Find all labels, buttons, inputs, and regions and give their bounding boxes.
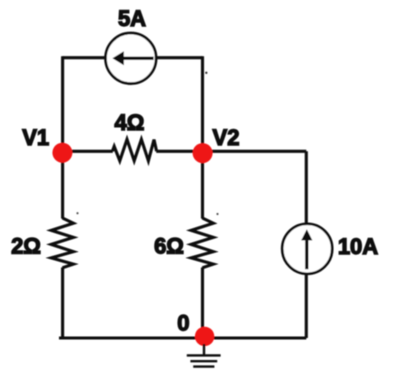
wire: middle vertical lower segment (6Ω down to node 0) xyxy=(201,268,204,339)
svg-text:0: 0 xyxy=(177,310,189,335)
wire: left vertical upper segment (top-left corner through node V1 to 2Ω) xyxy=(61,56,64,218)
resistor R2 6Ω zigzag body xyxy=(191,218,213,268)
current source I2 10A up-pointing arrow xyxy=(301,229,312,269)
node V2 junction dot xyxy=(193,143,213,163)
speck artifact right of 6Ω resistor top xyxy=(216,213,218,215)
svg-text:5A: 5A xyxy=(118,6,146,31)
current source I2 10A circle body xyxy=(282,224,332,274)
svg-text:6Ω: 6Ω xyxy=(154,234,184,259)
svg-text:V2: V2 xyxy=(213,125,240,150)
wire: left vertical lower segment (2Ω to bottom-left corner) xyxy=(61,268,64,340)
wire: middle vertical upper segment (top wire corner through node V2 to 6Ω) xyxy=(201,56,204,218)
wire: right vertical from corner down through 10A source to bottom-right corner xyxy=(305,151,308,338)
svg-text:V1: V1 xyxy=(22,125,49,150)
resistor R1 2Ω zigzag body xyxy=(51,218,73,268)
svg-text:2Ω: 2Ω xyxy=(11,233,41,258)
speck artifact left of 2Ω resistor top xyxy=(76,212,78,214)
current source I1 5A left-pointing arrow xyxy=(112,51,153,65)
current source I1 5A circle body xyxy=(106,33,157,84)
node 0 junction dot xyxy=(195,327,214,346)
svg-text:4Ω: 4Ω xyxy=(114,110,144,135)
ground symbol at node 0 xyxy=(187,344,221,367)
node V1 junction dot xyxy=(52,143,72,163)
wire: middle horizontal from 4Ω through node V2 to right branch corner xyxy=(156,150,306,153)
svg-text:10A: 10A xyxy=(338,234,378,259)
wire: top horizontal from top-left corner to top-right corner xyxy=(63,56,203,59)
resistor R3 4Ω zigzag body xyxy=(112,139,156,160)
wire: middle horizontal from node V1 to 4Ω xyxy=(63,150,113,153)
speck artifact near top of middle vertical wire xyxy=(205,72,207,74)
wire: bottom horizontal from bottom-left corner to bottom-right corner xyxy=(59,336,306,339)
